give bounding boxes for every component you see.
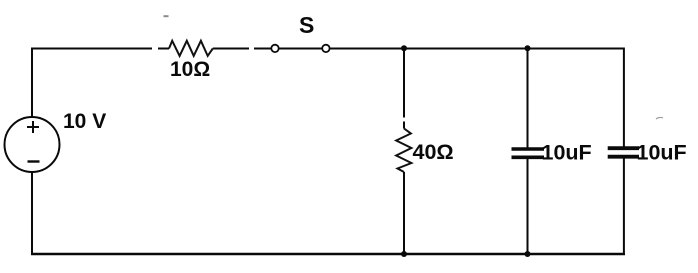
node junction bottom at first capacitor branch [525,251,531,257]
svg-text:10Ω: 10Ω [170,58,210,81]
svg-text:10 V: 10 V [63,110,106,133]
wire first capacitor branch vertical lower [527,159,529,254]
svg-text:10uF: 10uF [637,141,687,165]
svg-text:10uF: 10uF [542,141,592,165]
resistor R 10ohm [169,41,213,56]
wire bottom horizontal [31,253,625,255]
svg-text:S: S [299,12,314,38]
wire between resistor and switch [213,48,272,50]
stray mark right side [656,117,663,119]
wire switch to top-right corner [330,48,625,50]
wire first capacitor branch vertical upper [527,49,529,148]
wire left vertical lower (source to bottom wire) [31,172,33,255]
wire second capacitor branch vertical upper (right edge) [623,48,625,147]
wire top-left horizontal segment [31,48,169,50]
switch S [271,45,329,52]
node junction top at 40ohm branch [401,45,407,51]
wire 40ohm branch vertical lower [403,172,405,254]
node junction bottom at 40ohm branch [401,251,407,257]
stray mark above resistor [164,15,169,17]
node junction top at first capacitor branch [525,45,531,51]
capacitor C2 10uF [608,148,639,157]
wire 40ohm branch vertical upper [403,49,405,129]
resistor R 40ohm [396,129,411,173]
svg-text:40Ω: 40Ω [413,140,454,164]
voltage source V1 10V [5,117,60,172]
wire left vertical upper (source to top wire) [31,48,33,118]
capacitor C1 10uF [512,149,545,157]
wire second capacitor branch vertical lower (right edge) [623,159,625,256]
